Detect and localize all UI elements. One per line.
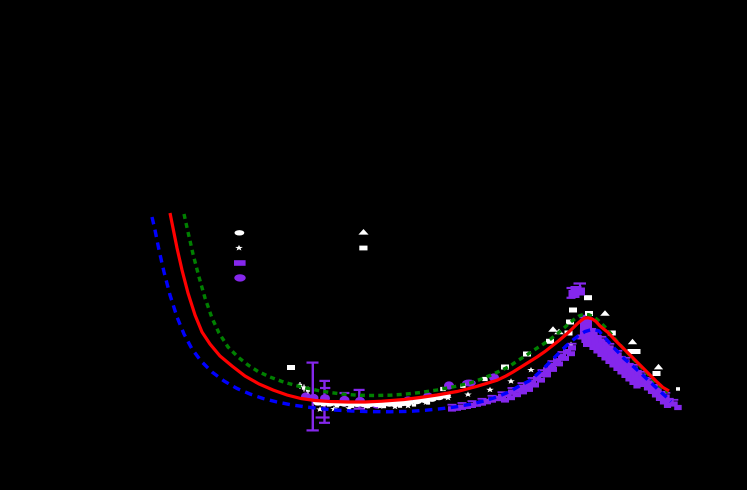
legend: white circle marker — [235, 230, 245, 235]
purple error bar 1 — [312, 363, 314, 431]
legend: white square marker — [359, 246, 367, 251]
purple square data trail (descending) — [577, 315, 681, 410]
purple error bar 4 — [358, 390, 360, 409]
legend: purple square marker — [234, 260, 246, 266]
legend: purple circle marker — [234, 274, 245, 281]
purple error bar 2 — [323, 381, 325, 423]
legend: white star marker — [235, 245, 243, 251]
purple error bar 3 — [344, 393, 346, 407]
purple peak cluster with error bars — [567, 284, 587, 299]
blue dashed theory curve — [152, 217, 671, 412]
purple circle data series — [301, 373, 499, 408]
green dashed theory curve — [184, 214, 668, 396]
white circle data series — [313, 393, 451, 408]
white small marker cluster with error bars — [298, 382, 430, 408]
legend: white triangle marker — [358, 229, 368, 235]
white square data series — [287, 295, 680, 391]
purple square data trail (ascending) — [448, 344, 577, 412]
white star data series — [316, 323, 590, 412]
white triangle data series — [548, 310, 663, 369]
red solid theory curve — [170, 213, 669, 402]
